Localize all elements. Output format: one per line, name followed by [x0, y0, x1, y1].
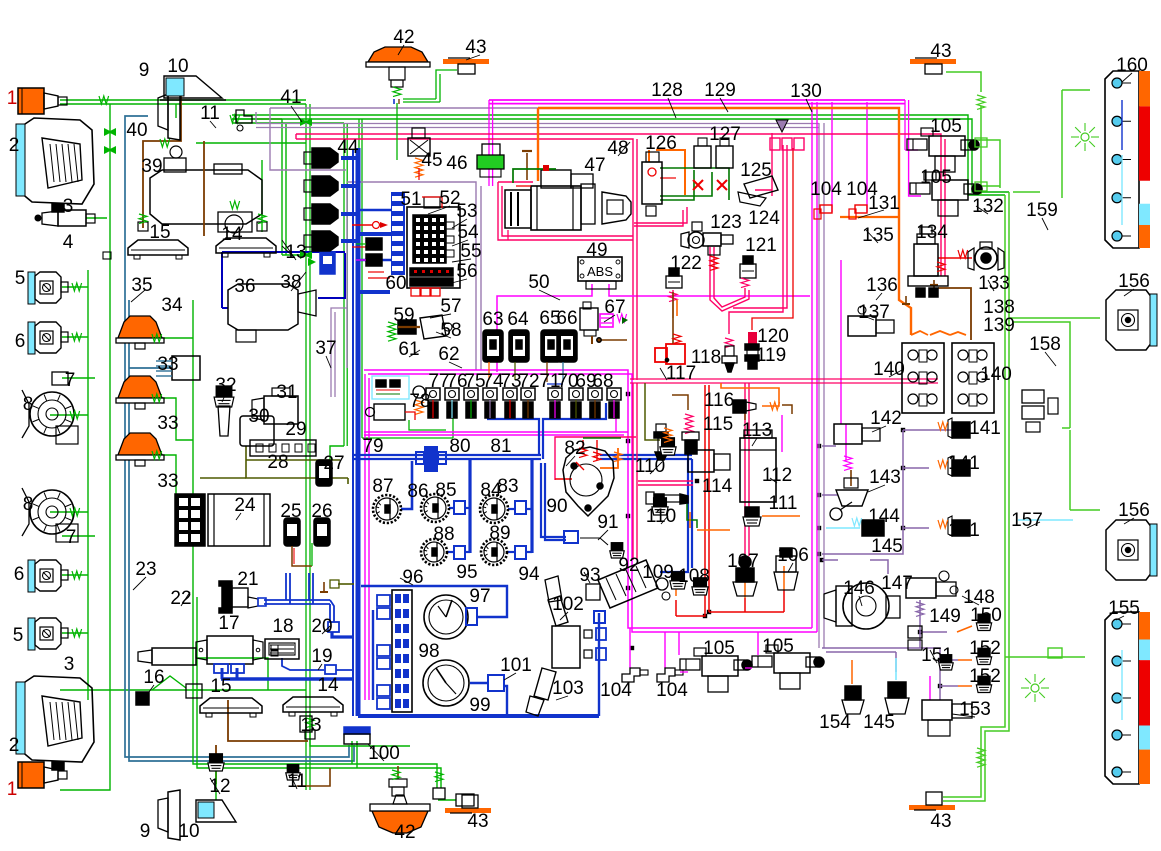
svg-text:9: 9 — [140, 821, 151, 842]
svg-text:1: 1 — [7, 88, 18, 109]
svg-text:10: 10 — [167, 56, 188, 77]
svg-text:95: 95 — [456, 562, 477, 583]
svg-text:99: 99 — [469, 695, 490, 716]
svg-text:11: 11 — [287, 771, 307, 792]
svg-text:140: 140 — [980, 364, 1012, 385]
svg-text:62: 62 — [438, 344, 459, 365]
svg-text:81: 81 — [490, 436, 511, 457]
svg-text:141: 141 — [948, 453, 980, 474]
svg-text:10: 10 — [178, 821, 199, 842]
svg-text:14: 14 — [317, 675, 339, 696]
svg-text:108: 108 — [678, 566, 710, 587]
svg-text:143: 143 — [869, 467, 901, 488]
svg-text:102: 102 — [552, 594, 584, 615]
svg-text:42: 42 — [393, 27, 414, 48]
svg-text:43: 43 — [930, 41, 951, 62]
svg-text:15: 15 — [149, 222, 170, 243]
svg-text:25: 25 — [280, 501, 301, 522]
svg-text:43: 43 — [467, 811, 488, 832]
svg-text:27: 27 — [323, 453, 344, 474]
svg-text:13: 13 — [285, 242, 306, 263]
svg-text:90: 90 — [546, 496, 567, 517]
svg-text:153: 153 — [959, 699, 991, 720]
svg-text:67: 67 — [604, 297, 625, 318]
svg-text:140: 140 — [873, 359, 905, 380]
svg-text:79: 79 — [362, 436, 383, 457]
svg-text:159: 159 — [1026, 200, 1058, 221]
svg-text:145: 145 — [871, 536, 903, 557]
svg-text:94: 94 — [518, 564, 540, 585]
svg-text:133: 133 — [978, 273, 1010, 294]
svg-text:125: 125 — [740, 160, 772, 181]
svg-text:92: 92 — [618, 555, 639, 576]
svg-text:152: 152 — [969, 666, 1001, 687]
svg-text:18: 18 — [272, 616, 293, 637]
svg-text:3: 3 — [64, 654, 75, 675]
svg-text:150: 150 — [970, 605, 1002, 626]
svg-text:107: 107 — [727, 551, 759, 572]
svg-text:33: 33 — [157, 413, 178, 434]
svg-text:105: 105 — [762, 636, 794, 657]
svg-text:28: 28 — [267, 452, 288, 473]
svg-text:49: 49 — [586, 240, 607, 261]
svg-text:ABS: ABS — [587, 264, 613, 279]
svg-text:80: 80 — [449, 436, 470, 457]
svg-text:116: 116 — [704, 390, 734, 411]
svg-text:48: 48 — [607, 138, 628, 159]
svg-text:88: 88 — [433, 524, 454, 545]
svg-text:24: 24 — [234, 495, 256, 516]
svg-text:31: 31 — [276, 382, 297, 403]
svg-text:1: 1 — [7, 779, 18, 800]
svg-text:63: 63 — [482, 309, 503, 330]
svg-text:97: 97 — [469, 586, 490, 607]
svg-text:96: 96 — [402, 567, 423, 588]
svg-text:30: 30 — [248, 406, 269, 427]
svg-text:12: 12 — [209, 776, 230, 797]
svg-text:119: 119 — [756, 345, 786, 366]
svg-text:157: 157 — [1011, 510, 1043, 531]
svg-text:104: 104 — [600, 680, 632, 701]
svg-text:110: 110 — [635, 456, 665, 477]
svg-text:66: 66 — [556, 308, 577, 329]
svg-text:58: 58 — [440, 320, 461, 341]
svg-text:145: 145 — [863, 712, 895, 733]
svg-text:118: 118 — [691, 347, 721, 368]
svg-text:82: 82 — [564, 438, 585, 459]
svg-text:105: 105 — [703, 638, 735, 659]
svg-text:106: 106 — [777, 545, 809, 566]
svg-text:87: 87 — [372, 476, 393, 497]
svg-text:53: 53 — [456, 201, 477, 222]
svg-text:19: 19 — [311, 646, 332, 667]
svg-text:126: 126 — [645, 133, 677, 154]
svg-text:51: 51 — [400, 189, 421, 210]
svg-text:23: 23 — [135, 559, 156, 580]
svg-text:26: 26 — [311, 501, 332, 522]
svg-text:72: 72 — [518, 371, 539, 392]
svg-text:136: 136 — [866, 275, 898, 296]
svg-text:146: 146 — [843, 578, 875, 599]
svg-text:105: 105 — [930, 116, 962, 137]
svg-text:42: 42 — [394, 822, 415, 843]
svg-text:154: 154 — [819, 712, 851, 733]
svg-text:8: 8 — [23, 494, 34, 515]
svg-text:54: 54 — [457, 222, 479, 243]
svg-text:152: 152 — [969, 638, 1001, 659]
svg-text:129: 129 — [704, 80, 736, 101]
svg-text:137: 137 — [858, 302, 890, 323]
svg-text:32: 32 — [215, 375, 236, 396]
svg-text:151: 151 — [921, 645, 953, 666]
svg-text:40: 40 — [126, 120, 147, 141]
svg-text:155: 155 — [1108, 598, 1140, 619]
svg-text:7: 7 — [65, 370, 76, 391]
svg-text:130: 130 — [790, 81, 822, 102]
svg-text:41: 41 — [280, 87, 301, 108]
svg-text:139: 139 — [983, 315, 1015, 336]
svg-text:89: 89 — [489, 523, 510, 544]
svg-text:7: 7 — [66, 527, 77, 548]
svg-text:15: 15 — [210, 676, 231, 697]
svg-text:91: 91 — [597, 512, 618, 533]
svg-text:14: 14 — [221, 224, 243, 245]
svg-text:124: 124 — [748, 208, 780, 229]
svg-text:38: 38 — [280, 272, 301, 293]
svg-text:45: 45 — [421, 150, 442, 171]
svg-text:156: 156 — [1118, 500, 1150, 521]
svg-text:105: 105 — [920, 167, 952, 188]
svg-text:134: 134 — [916, 222, 948, 243]
svg-text:158: 158 — [1029, 334, 1061, 355]
svg-text:6: 6 — [14, 564, 25, 585]
svg-text:78: 78 — [409, 391, 430, 412]
svg-text:33: 33 — [157, 471, 178, 492]
svg-text:2: 2 — [9, 735, 20, 756]
svg-text:104: 104 — [810, 179, 842, 200]
svg-text:120: 120 — [757, 326, 789, 347]
svg-text:21: 21 — [237, 569, 258, 590]
svg-text:156: 156 — [1118, 271, 1150, 292]
svg-text:101: 101 — [500, 655, 532, 676]
svg-text:46: 46 — [446, 153, 467, 174]
svg-text:3: 3 — [63, 196, 74, 217]
svg-text:115: 115 — [703, 414, 733, 435]
svg-text:2: 2 — [9, 135, 20, 156]
svg-text:9: 9 — [139, 60, 150, 81]
svg-text:83: 83 — [497, 476, 518, 497]
svg-text:37: 37 — [315, 338, 336, 359]
svg-text:36: 36 — [234, 276, 255, 297]
svg-text:93: 93 — [579, 565, 600, 586]
svg-text:22: 22 — [170, 588, 191, 609]
svg-text:149: 149 — [929, 606, 961, 627]
svg-text:17: 17 — [218, 613, 239, 634]
svg-text:86: 86 — [407, 481, 428, 502]
svg-text:160: 160 — [1116, 55, 1148, 76]
svg-text:60: 60 — [385, 273, 406, 294]
svg-text:144: 144 — [868, 506, 900, 527]
svg-text:35: 35 — [131, 275, 152, 296]
svg-text:68: 68 — [592, 371, 613, 392]
svg-text:5: 5 — [13, 625, 24, 646]
svg-text:13: 13 — [300, 715, 321, 736]
svg-text:131: 131 — [868, 193, 900, 214]
svg-text:85: 85 — [435, 480, 456, 501]
svg-text:43: 43 — [930, 811, 951, 832]
svg-text:55: 55 — [460, 241, 481, 262]
svg-text:11: 11 — [200, 103, 220, 124]
svg-text:111: 111 — [769, 493, 798, 514]
svg-text:59: 59 — [393, 305, 414, 326]
svg-text:103: 103 — [552, 678, 584, 699]
svg-text:44: 44 — [337, 137, 359, 158]
svg-text:34: 34 — [161, 295, 183, 316]
svg-text:109: 109 — [642, 562, 674, 583]
svg-text:127: 127 — [709, 124, 741, 145]
svg-text:50: 50 — [528, 272, 549, 293]
svg-text:141: 141 — [948, 520, 980, 541]
svg-text:98: 98 — [418, 641, 439, 662]
svg-text:132: 132 — [972, 196, 1004, 217]
svg-text:56: 56 — [456, 261, 477, 282]
svg-text:114: 114 — [702, 476, 733, 497]
svg-text:128: 128 — [651, 80, 683, 101]
svg-text:33: 33 — [157, 354, 178, 375]
svg-text:4: 4 — [63, 232, 74, 253]
svg-text:47: 47 — [584, 155, 605, 176]
svg-text:5: 5 — [15, 268, 26, 289]
svg-text:147: 147 — [881, 573, 913, 594]
svg-text:123: 123 — [710, 212, 742, 233]
svg-text:135: 135 — [862, 225, 894, 246]
svg-text:142: 142 — [870, 408, 902, 429]
svg-text:110: 110 — [646, 506, 676, 527]
svg-text:8: 8 — [23, 394, 34, 415]
svg-text:20: 20 — [311, 616, 332, 637]
svg-text:6: 6 — [15, 331, 26, 352]
svg-text:112: 112 — [762, 465, 792, 486]
svg-text:29: 29 — [285, 419, 306, 440]
svg-text:100: 100 — [368, 743, 400, 764]
svg-text:39: 39 — [141, 156, 162, 177]
svg-text:43: 43 — [465, 37, 486, 58]
svg-text:16: 16 — [143, 667, 164, 688]
svg-text:113: 113 — [742, 420, 772, 441]
svg-text:122: 122 — [670, 253, 702, 274]
svg-text:64: 64 — [507, 309, 529, 330]
svg-text:104: 104 — [656, 680, 688, 701]
svg-text:121: 121 — [745, 235, 777, 256]
svg-text:61: 61 — [398, 339, 419, 360]
svg-text:57: 57 — [440, 296, 461, 317]
svg-text:141: 141 — [969, 418, 1001, 439]
